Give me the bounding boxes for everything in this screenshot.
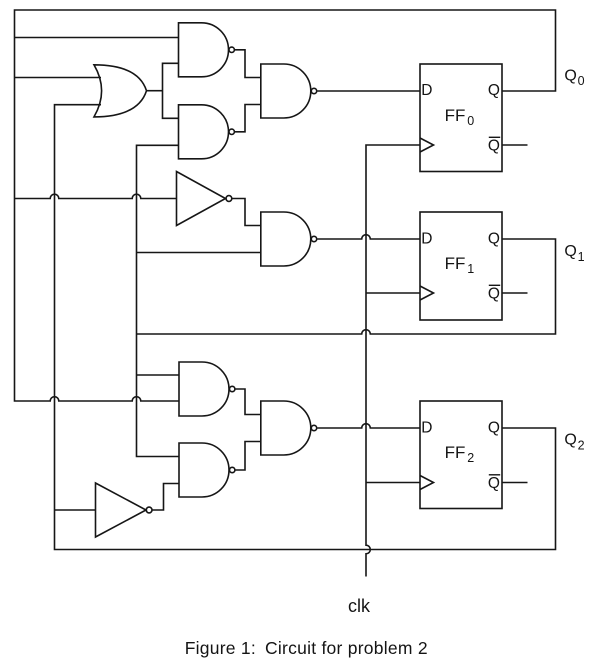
nand U8 (lower cluster bottom) bbox=[179, 443, 229, 497]
svg-text:D: D bbox=[421, 419, 432, 436]
clock triangle FF1 bbox=[420, 286, 434, 300]
wire clk to FF2 clock bbox=[366, 482, 420, 484]
svg-text:0: 0 bbox=[467, 114, 474, 128]
svg-text:Q: Q bbox=[488, 286, 500, 303]
svg-text:1: 1 bbox=[467, 262, 474, 276]
svg-text:FF: FF bbox=[445, 106, 466, 125]
svg-text:2: 2 bbox=[467, 451, 474, 465]
wire Q0 feedback: Q0 output right, up, top rail, left rail down, into NAND5 lower input line with hops bbox=[15, 10, 556, 401]
wire Q1 to NAND4 lower input bbox=[137, 252, 261, 254]
overline FF1 Qbar bbox=[489, 284, 500, 286]
nand U6 (output stage for FF1) bbox=[261, 212, 311, 266]
flip-flop FF2 bbox=[420, 401, 502, 509]
clock triangle FF2 bbox=[420, 476, 434, 490]
wire FF2 Qbar stub bbox=[502, 482, 528, 484]
svg-text:Q: Q bbox=[488, 475, 500, 492]
svg-text:Q: Q bbox=[488, 419, 500, 436]
wire NAND U4 output to FF0 D bbox=[317, 90, 420, 92]
wire Q0 to OR upper input bbox=[15, 77, 102, 79]
svg-text:FF: FF bbox=[445, 254, 466, 273]
wire split vertical to NAND1 and NAND2 inputs bbox=[163, 63, 179, 118]
svg-text:D: D bbox=[421, 230, 432, 247]
inverter U5 bbox=[177, 172, 226, 226]
or-gate U1 bbox=[94, 65, 147, 117]
wire Q1 output feedback with hop over clk bbox=[137, 239, 556, 334]
svg-text:Q: Q bbox=[488, 230, 500, 247]
nand U4 (output stage for FF0) bbox=[261, 64, 311, 118]
wire NAND U9 output to FF2 D with hop over clk bbox=[317, 424, 420, 428]
wire Q0 to NAND1 upper input bbox=[15, 37, 179, 39]
wire NAND U8 output to NAND U9 lower input bbox=[235, 442, 260, 471]
wire Q0 to inverter1 input with hops bbox=[15, 194, 177, 198]
wire NAND U2 output to NAND U4 upper input bbox=[235, 50, 261, 78]
svg-text:Figure 1: Circuit for problem: Figure 1: Circuit for problem 2 bbox=[185, 638, 428, 658]
svg-text:2: 2 bbox=[578, 438, 585, 452]
nand U2 (top) bbox=[179, 23, 229, 77]
flip-flop FF1 bbox=[420, 212, 502, 320]
svg-text:Q: Q bbox=[564, 67, 576, 84]
svg-text:FF: FF bbox=[445, 443, 466, 462]
wire FF0 Qbar stub bbox=[502, 144, 528, 146]
wire Q2 feedback: from OR lower input down left vertical to bottom rail, right and up to Q2 output bbox=[55, 105, 556, 550]
nand U3 (second) bbox=[179, 105, 229, 159]
svg-text:Q: Q bbox=[488, 138, 500, 155]
svg-text:0: 0 bbox=[578, 74, 585, 88]
inverter U10 (bottom) bbox=[96, 483, 147, 537]
overline FF0 Qbar bbox=[489, 136, 500, 138]
wire NAND U3 output to NAND U4 lower input bbox=[235, 105, 261, 132]
svg-text:1: 1 bbox=[578, 250, 585, 264]
wire NAND U7 output to NAND U9 upper input bbox=[235, 389, 260, 415]
overline FF2 Qbar bbox=[489, 474, 500, 476]
wire clk vertical with hop over bottom rail and branch to FF0 clock bbox=[366, 145, 420, 577]
wire Q2 to inverter2 input bbox=[55, 509, 96, 511]
wire OR output to split node bbox=[147, 90, 163, 92]
wire inverter U5 output to NAND U6 upper input bbox=[232, 199, 260, 226]
wire Q1 to NAND5 upper input bbox=[137, 374, 180, 376]
flip-flop FF0 bbox=[420, 64, 502, 172]
wire NAND U6 output to FF1 D with hop over clk bbox=[317, 235, 420, 239]
wire FF1 Qbar stub bbox=[502, 292, 528, 294]
svg-text:Q: Q bbox=[488, 82, 500, 99]
svg-text:D: D bbox=[421, 82, 432, 99]
wire Q1 feedback vertical: NAND2 lower input down to NAND6 upper input bbox=[137, 145, 180, 456]
nand U7 (lower cluster top) bbox=[179, 362, 229, 416]
svg-text:clk: clk bbox=[348, 596, 371, 616]
clock triangle FF0 bbox=[420, 138, 434, 152]
svg-text:Q: Q bbox=[564, 243, 576, 260]
wire clk to FF1 clock bbox=[366, 292, 420, 294]
svg-text:Q: Q bbox=[564, 432, 576, 449]
wire inverter U10 output to NAND U8 lower input bbox=[152, 484, 179, 511]
nand U9 (output stage for FF2) bbox=[261, 401, 311, 455]
